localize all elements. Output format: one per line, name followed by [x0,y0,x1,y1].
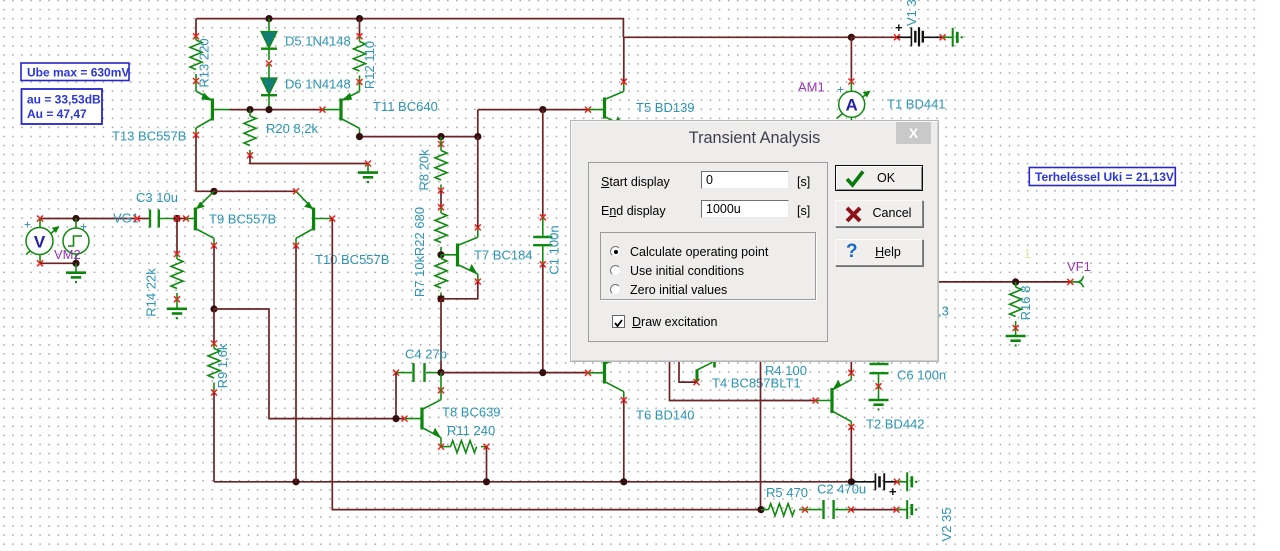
node R20 top junction [246,106,253,113]
node R16 junction [1012,278,1019,285]
ground below R20 [358,161,378,183]
svg-text:VF1: VF1 [1067,259,1091,274]
svg-text:R4 100: R4 100 [765,363,807,378]
capacitor C6 100n [870,362,889,390]
resistor R13 [190,33,202,84]
pin input left end [37,216,43,222]
wire input row [40,218,149,220]
node battery V2 junction [848,478,855,485]
resistor R20 8,2k [244,110,256,159]
capacitor C3 10u [150,210,177,228]
resistor R22 680 [435,204,447,255]
node T6 rail junction [620,478,627,485]
wire R9 top [213,309,215,344]
wire T7 collector up [477,137,479,228]
svg-text:+: + [889,484,897,499]
diode D6 1N4148 [261,64,277,110]
capacitor C4 27p [393,363,441,382]
svg-text:T11 BC640: T11 BC640 [373,99,438,114]
pin output ground row B [893,507,899,513]
node corner junction x478 [474,133,481,140]
wire C4 row to T6 base [441,372,587,374]
svg-text:R13 220: R13 220 [197,38,212,87]
wire T5 collector up [623,37,625,81]
node T10 collector bottom junction [292,478,299,485]
wire R11 down to rail A [486,447,488,482]
measurement box au/Au [22,89,103,124]
node R8 top junction [437,133,444,140]
transistor T7 BC184 [441,224,481,284]
wire junction to T9 base [177,218,186,220]
node C1 top junction [539,106,546,113]
wire rail to R13 [195,19,197,37]
node R11 rail junction [483,478,490,485]
measurement box Terheléssel [1029,168,1175,186]
svg-text:R14 22k: R14 22k [144,268,159,317]
wire T10 base down and right (rail B) [332,219,761,510]
svg-text:R7 10k: R7 10k [412,255,427,297]
svg-text:T8 BC639: T8 BC639 [442,405,501,420]
wire T2 base row [670,362,816,401]
svg-text:A: A [846,96,858,115]
svg-text:T6 BD140: T6 BD140 [636,408,695,423]
node T8 base junction [392,415,399,422]
wire bottom rail A [214,481,851,483]
capacitor C2 470u [805,500,854,519]
transistor T6 BD140 [585,354,627,404]
ground right of V2 [907,472,916,491]
svg-text:T10 BC557B: T10 BC557B [315,252,389,267]
node R7 bottom junction [437,295,444,302]
svg-text:C6 100n: C6 100n [897,368,946,383]
node D6 bottom junction [265,106,272,113]
transistor T13 BC557B [193,81,230,138]
transistor T5 BD139 [585,79,627,136]
wire base row T13 to T11 [230,109,323,111]
node T9 collector junction [210,305,217,312]
pin VF1 [1067,279,1073,285]
wire junction down to ammeter [850,37,852,81]
wire T2 collector down [850,427,852,482]
node rail/D5 junction [265,15,272,22]
wire pin to ground row B [896,509,907,511]
ground below R14 [167,299,187,318]
svg-text:T2 BD442: T2 BD442 [866,417,925,432]
resistor R5 470 [761,504,808,516]
wire R4 line down [760,362,762,510]
svg-text:1: 1 [1024,247,1031,261]
wire T2 emitter up [850,362,852,373]
resistor R16 8 [1010,282,1022,331]
wire V1 row to battery [851,36,897,38]
pin VG1 [134,216,140,222]
node V1 row junction [848,34,855,41]
svg-text:R11 240: R11 240 [447,423,495,438]
ground below C6 [869,386,889,409]
wire top supply rail [196,19,623,38]
resistor R9 1,6k [208,341,220,396]
svg-text:Au = 47,47: Au = 47,47 [27,107,87,121]
ground right of V1 [953,28,962,47]
wire rail to R12 [359,19,361,37]
svg-text:V: V [34,233,46,252]
svg-text:C1 100n: C1 100n [547,225,562,274]
svg-text:C4 27p: C4 27p [405,347,447,362]
svg-text:T13 BC557B: T13 BC557B [112,129,186,144]
resistor R8 20k [435,137,447,194]
svg-text:R12 110: R12 110 [362,41,377,89]
svg-text:VG1: VG1 [113,211,139,226]
node C4 right junction [437,369,444,376]
svg-text:+: + [895,20,903,35]
battery V1 35 [894,20,953,46]
svg-text:V2 35: V2 35 [939,508,954,542]
node T7 base junction [437,251,444,258]
ground right row B [907,500,916,519]
svg-text:T7 BC184: T7 BC184 [474,248,533,263]
node R5 junction [757,506,764,513]
generator VM2 [63,215,89,267]
svg-text:R16 8: R16 8 [1018,286,1033,321]
svg-text:+: + [80,220,87,234]
node rail/R12 junction [356,15,363,22]
svg-text:,3: ,3 [938,304,949,319]
wire R8 to R22 [440,191,442,208]
svg-text:T5 BD139: T5 BD139 [636,100,695,115]
wire top rail to V1 row [623,36,851,38]
wire T5 emitter down to T6 (hidden under dialog) [623,136,625,352]
transistor T8 BC639 [402,373,445,450]
svg-text:R9 1,6k: R9 1,6k [215,343,230,388]
svg-text:C3 10u: C3 10u [136,190,178,205]
svg-text:+: + [24,218,31,232]
resistor R7 10k [435,255,447,302]
battery V2 35 [851,473,907,499]
wire voltmeter bottom to VM2 bottom [40,262,76,264]
svg-text:R22 680: R22 680 [412,207,427,256]
wire junction right to x269 [214,309,405,419]
transistor T9 BC557B [183,191,217,248]
svg-text:D6 1N4148: D6 1N4148 [285,77,351,92]
capacitor C1 100n [533,110,552,373]
diode D5 1N4148 [261,19,277,67]
node T9 emitter junction [210,188,217,195]
resistor R14 22k [171,251,183,302]
transistor T2 BD442 [813,370,855,430]
svg-text:R20 8,2k: R20 8,2k [266,121,319,136]
ground below R16 [1006,328,1026,345]
svg-text:T9 BC557B: T9 BC557B [209,212,276,227]
transistor T11 BC640 [320,82,360,133]
wire T9 collector down [213,246,215,309]
wire T11 collector row [360,110,589,137]
wire T7 emitter to R7 bottom [441,282,478,299]
voltmeter V (input meter) [24,218,60,267]
svg-text:D5 1N4148: D5 1N4148 [285,34,351,49]
ground below VM2 [66,263,86,282]
svg-text:T1 BD441: T1 BD441 [887,97,946,112]
svg-text:V1 35: V1 35 [904,0,919,26]
wire T9/T10 emitter rail [214,190,296,192]
wire VF1 row [939,281,1071,283]
wire R7 bottom down to C4 row [440,299,442,373]
svg-text:R8 20k: R8 20k [417,149,432,191]
svg-text:Ube max = 630mV: Ube max = 630mV [27,66,129,80]
node C3/R14 junction [173,215,180,222]
wire junction down to R14 [176,219,178,255]
wire C4 left down to T8 base [395,373,397,419]
output terminal VF1 [1070,276,1083,287]
node T11 collector junction [356,133,363,140]
measurement box Ube max [21,63,129,81]
svg-text:VM2: VM2 [54,247,81,262]
wire T13 collector down to T9 emitter rail [196,135,214,191]
svg-text:au = 33,53dB: au = 33,53dB [27,93,101,107]
svg-text:AM1: AM1 [798,80,825,95]
resistor R11 240 [441,441,490,453]
wire T10 collector down [295,246,297,482]
Transient Analysis dialog [570,120,939,362]
svg-text:R5 470: R5 470 [766,485,808,500]
ammeter AM1 [837,79,871,122]
svg-text:+: + [837,83,844,97]
wire T4 base left and up [679,362,697,382]
svg-text:Terheléssel Uki = 21,13V: Terheléssel Uki = 21,13V [1035,170,1174,184]
node C1 bottom junction [539,369,546,376]
transistor T10 BC557B [293,188,335,248]
wire T6 collector down [623,400,625,482]
wire C2 to output ground [851,509,896,511]
svg-text:C2 470u: C2 470u [817,482,866,497]
transistor T4 BC857BLT1 [694,361,715,385]
resistor R12 [354,33,366,85]
wire R9 down to bottom rail A [213,393,215,482]
wire R20 to ground [250,155,368,163]
